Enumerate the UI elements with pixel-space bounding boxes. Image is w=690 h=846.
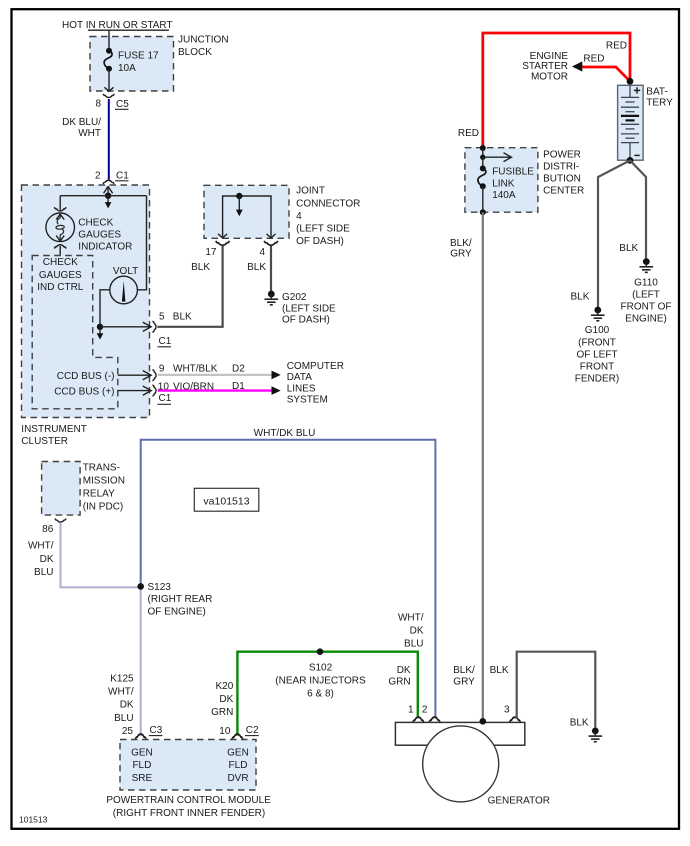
transmission relay box <box>42 462 81 516</box>
svg-text:FUSIBLE: FUSIBLE <box>492 167 534 178</box>
junction block box <box>90 37 174 92</box>
svg-text:2: 2 <box>422 704 428 715</box>
svg-text:C1: C1 <box>159 393 172 404</box>
splice S102 <box>275 648 366 699</box>
svg-text:(LEFT SIDE: (LEFT SIDE <box>296 224 350 235</box>
svg-text:2: 2 <box>95 170 101 181</box>
svg-text:5: 5 <box>159 312 165 323</box>
svg-text:140A: 140A <box>492 190 516 201</box>
joint connector 4 box <box>204 185 289 238</box>
svg-text:8: 8 <box>95 99 101 110</box>
wire DK BLU/WHT <box>108 99 110 180</box>
svg-text:S123: S123 <box>148 582 172 593</box>
wire K125 WHT/DK BLU to PCM <box>140 586 142 735</box>
wire BLK generator pin3 to ground <box>517 652 596 728</box>
svg-text:FRONT: FRONT <box>580 362 614 373</box>
svg-text:FUSE 17: FUSE 17 <box>118 50 159 61</box>
ground G110 <box>621 258 672 324</box>
joint connector internal bus <box>218 193 275 238</box>
svg-text:DK BLU/: DK BLU/ <box>62 117 101 128</box>
svg-text:GAUGES: GAUGES <box>39 270 82 281</box>
svg-text:DK: DK <box>410 625 424 636</box>
svg-text:RED: RED <box>458 128 479 139</box>
svg-text:(RIGHT FRONT INNER FENDER): (RIGHT FRONT INNER FENDER) <box>113 808 265 819</box>
CCD BUS (+) arrow out <box>54 386 151 397</box>
wire WHT/DK BLU trunk <box>141 440 436 718</box>
connector C1 pin 2 <box>95 170 129 184</box>
svg-text:STARTER: STARTER <box>522 61 568 72</box>
svg-text:C5: C5 <box>116 99 129 110</box>
svg-text:LINK: LINK <box>492 178 515 189</box>
connector pin 86 <box>42 519 66 536</box>
generator body <box>395 722 524 745</box>
arrow stub down from junction <box>105 196 112 209</box>
wire and arrow to pin 5 <box>100 322 151 331</box>
svg-text:RED: RED <box>583 54 604 65</box>
generator rotor circle <box>423 726 499 802</box>
svg-text:BLK: BLK <box>619 243 638 254</box>
svg-text:BLU: BLU <box>114 713 133 724</box>
svg-text:C2: C2 <box>246 725 259 736</box>
svg-text:CCD BUS (+): CCD BUS (+) <box>54 386 114 397</box>
svg-text:POWER: POWER <box>543 150 581 161</box>
connector C1 pin 5 <box>152 312 192 347</box>
svg-text:BLK/: BLK/ <box>453 665 475 676</box>
ground G202 <box>265 291 337 326</box>
node BLK/GRY direct to generator <box>480 718 487 725</box>
arrow into cluster pin 2 <box>104 186 113 195</box>
wire volt gauge to pin5 rail <box>100 290 110 327</box>
node ENGINE STARTER MOTOR <box>522 51 568 83</box>
svg-text:CLUSTER: CLUSTER <box>21 436 68 447</box>
svg-text:BAT-: BAT- <box>646 87 667 98</box>
svg-text:BLK: BLK <box>191 262 210 273</box>
svg-text:MOTOR: MOTOR <box>531 72 568 83</box>
svg-text:VOLT: VOLT <box>113 266 138 277</box>
svg-text:6 & 8): 6 & 8) <box>307 688 334 699</box>
wire VIO/BRN D1 <box>158 381 281 395</box>
node pin5 junction <box>97 324 103 330</box>
node cluster feed junction <box>105 193 111 199</box>
svg-text:OF ENGINE): OF ENGINE) <box>148 606 206 617</box>
svg-text:HOT IN RUN OR START: HOT IN RUN OR START <box>62 20 173 31</box>
battery <box>618 78 674 164</box>
connector C1 pin 10 <box>152 385 171 404</box>
ground G100 <box>575 307 619 385</box>
svg-text:DK: DK <box>397 665 411 676</box>
va101513 tag box <box>194 488 258 511</box>
svg-text:(NEAR INJECTORS: (NEAR INJECTORS <box>275 676 366 687</box>
svg-text:(LEFT SIDE: (LEFT SIDE <box>282 304 336 315</box>
node HOT IN RUN OR START <box>62 20 173 31</box>
svg-text:WHT/BLK: WHT/BLK <box>173 364 218 375</box>
svg-text:DVR: DVR <box>227 773 248 784</box>
connector generator pin 2 <box>422 704 440 722</box>
svg-text:4: 4 <box>259 247 265 258</box>
svg-text:S102: S102 <box>309 662 333 673</box>
svg-text:G202: G202 <box>282 292 307 303</box>
node PDC feed junction <box>480 145 486 151</box>
svg-text:FENDER): FENDER) <box>575 374 619 385</box>
svg-text:WHT/: WHT/ <box>398 613 424 624</box>
svg-text:FLD: FLD <box>229 760 248 771</box>
svg-text:FLD: FLD <box>132 760 151 771</box>
svg-text:POWERTRAIN CONTROL MODULE: POWERTRAIN CONTROL MODULE <box>106 795 271 806</box>
wire battery to G110 <box>630 160 646 258</box>
wire hot feed into junction block <box>108 30 110 51</box>
svg-text:1: 1 <box>408 704 414 715</box>
svg-text:WHT: WHT <box>78 128 101 139</box>
svg-text:CENTER: CENTER <box>543 186 584 197</box>
volt gauge U-volt <box>110 266 138 304</box>
fuse F17 10A <box>104 48 159 74</box>
svg-text:17: 17 <box>205 247 217 258</box>
splice S123 <box>137 582 212 617</box>
connector C2 pin 10 <box>219 725 259 740</box>
svg-text:CCD BUS (-): CCD BUS (-) <box>57 371 115 382</box>
svg-text:(IN PDC): (IN PDC) <box>83 502 124 513</box>
svg-text:LINES: LINES <box>287 383 316 394</box>
svg-text:K20: K20 <box>216 681 234 692</box>
svg-text:WHT/: WHT/ <box>28 541 54 552</box>
svg-text:WHT/: WHT/ <box>108 687 134 698</box>
check gauges ind ctrl box <box>32 256 118 409</box>
svg-text:OF LEFT: OF LEFT <box>576 349 617 360</box>
svg-text:10A: 10A <box>118 63 136 74</box>
svg-text:4: 4 <box>296 211 302 222</box>
wire to lamp <box>59 196 61 210</box>
node COMPUTER DATA LINES SYSTEM <box>287 361 344 406</box>
instrument cluster box <box>22 185 150 418</box>
ground generator <box>589 728 603 742</box>
svg-text:GRY: GRY <box>453 677 475 688</box>
lamp CHECK GAUGES INDICATOR <box>46 207 132 252</box>
powertrain control module box <box>120 740 256 791</box>
svg-text:K125: K125 <box>110 674 134 685</box>
svg-text:JOINT: JOINT <box>296 186 325 197</box>
svg-text:GAUGES: GAUGES <box>78 230 121 241</box>
svg-text:RED: RED <box>606 40 627 51</box>
svg-text:COMPUTER: COMPUTER <box>287 361 344 372</box>
fusible link 140A <box>478 148 534 215</box>
svg-text:BLU: BLU <box>404 638 423 649</box>
svg-text:FRONT OF: FRONT OF <box>621 302 672 313</box>
svg-text:MISSION: MISSION <box>83 476 125 487</box>
svg-text:JUNCTION: JUNCTION <box>178 35 229 46</box>
wire K20 DK GRN <box>237 652 417 736</box>
svg-text:(LEFT: (LEFT <box>632 289 660 300</box>
wire lamp to ctrl box <box>59 246 61 256</box>
svg-text:BLK: BLK <box>490 665 509 676</box>
svg-text:10: 10 <box>219 726 231 737</box>
wire WHT/DK BLU relay to S123 <box>61 523 141 588</box>
svg-text:G100: G100 <box>585 325 610 336</box>
svg-text:SYSTEM: SYSTEM <box>287 395 328 406</box>
svg-text:RELAY: RELAY <box>83 489 115 500</box>
wire fuse to C5 with arrow <box>104 69 113 92</box>
CCD BUS (-) arrow out <box>57 371 151 382</box>
svg-text:GENERATOR: GENERATOR <box>488 796 550 807</box>
svg-text:ENGINE: ENGINE <box>530 51 569 62</box>
svg-text:OF DASH): OF DASH) <box>282 315 330 326</box>
arrow stub down to ctrl <box>97 327 104 340</box>
wire BLK/GRY main <box>482 212 484 720</box>
svg-text:C3: C3 <box>150 725 163 736</box>
svg-text:SRE: SRE <box>132 773 153 784</box>
svg-text:C1: C1 <box>159 336 172 347</box>
svg-text:GRN: GRN <box>388 677 410 688</box>
connector C3 pin 25 <box>122 725 163 740</box>
svg-text:3: 3 <box>504 704 510 715</box>
svg-text:101513: 101513 <box>19 815 48 825</box>
svg-text:BLU: BLU <box>34 567 53 578</box>
svg-text:25: 25 <box>122 726 134 737</box>
connector pin 4 <box>259 241 277 258</box>
svg-text:ENGINE): ENGINE) <box>625 314 667 325</box>
svg-text:BLK: BLK <box>247 262 266 273</box>
svg-text:DK: DK <box>219 694 233 705</box>
svg-text:CHECK: CHECK <box>78 218 113 229</box>
svg-text:DISTRI-: DISTRI- <box>543 162 579 173</box>
svg-text:DK: DK <box>120 700 134 711</box>
svg-text:IND CTRL: IND CTRL <box>37 282 84 293</box>
svg-text:9: 9 <box>159 364 165 375</box>
wire RED main feed <box>483 33 630 148</box>
svg-text:BLK: BLK <box>570 717 589 728</box>
svg-text:TRANS-: TRANS- <box>83 463 120 474</box>
svg-text:CHECK: CHECK <box>43 257 78 268</box>
svg-text:OF DASH): OF DASH) <box>296 236 344 247</box>
wire WHT/BLK D2 <box>158 363 281 379</box>
svg-text:va101513: va101513 <box>203 496 249 508</box>
connector generator pin 3 <box>504 704 520 722</box>
svg-text:GRN: GRN <box>211 707 233 718</box>
svg-text:BLK: BLK <box>570 291 589 302</box>
svg-text:BLOCK: BLOCK <box>178 47 212 58</box>
wire RED to starter <box>575 67 630 81</box>
svg-text:BLK: BLK <box>173 312 192 323</box>
svg-text:(FRONT: (FRONT <box>578 337 616 348</box>
connector generator pin 1 <box>408 704 424 722</box>
svg-text:86: 86 <box>42 524 54 535</box>
svg-text:WHT/DK BLU: WHT/DK BLU <box>254 428 316 439</box>
svg-text:BUTION: BUTION <box>543 174 581 185</box>
connector pin 17 <box>205 241 229 258</box>
arrow to engine starter motor <box>572 61 582 71</box>
wire right branch to volt gauge <box>137 196 147 290</box>
connector C5 pin 8 <box>95 94 129 110</box>
svg-text:G110: G110 <box>634 277 658 288</box>
svg-text:GEN: GEN <box>131 747 153 758</box>
svg-text:INSTRUMENT: INSTRUMENT <box>21 424 87 435</box>
svg-text:C1: C1 <box>116 171 129 182</box>
wire BLK pin4 to G202 <box>270 246 272 291</box>
svg-text:TERY: TERY <box>646 98 673 109</box>
connector C1 pin 9 <box>152 370 156 381</box>
wire BLK pin5 to joint connector <box>157 245 222 327</box>
svg-text:DK: DK <box>40 554 54 565</box>
wire battery to G100 <box>598 160 630 307</box>
svg-text:CONNECTOR: CONNECTOR <box>296 198 360 209</box>
power distribution center box <box>465 148 538 213</box>
svg-text:GRY: GRY <box>450 249 472 260</box>
svg-text:GEN: GEN <box>227 747 249 758</box>
svg-text:BLK/: BLK/ <box>450 238 472 249</box>
svg-text:(RIGHT REAR: (RIGHT REAR <box>148 594 213 605</box>
svg-text:D2: D2 <box>232 363 245 374</box>
svg-text:DATA: DATA <box>287 372 313 383</box>
svg-text:INDICATOR: INDICATOR <box>78 242 132 253</box>
wire cluster top rail <box>60 195 146 197</box>
